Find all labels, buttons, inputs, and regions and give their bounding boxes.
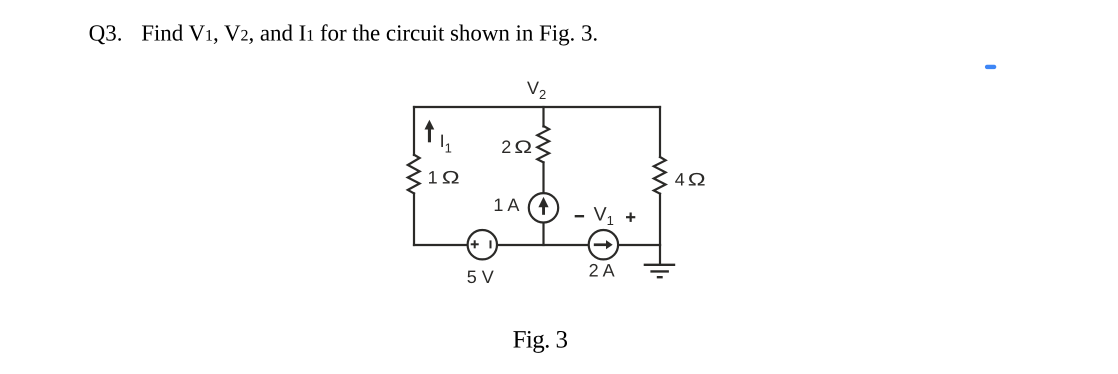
resistor R 4ohm (654, 157, 666, 194)
svg-text:Fig. 3: Fig. 3 (513, 327, 568, 354)
wire middle lower (542, 223, 544, 245)
svg-text:Ω: Ω (688, 170, 706, 190)
resistor R 1ohm (408, 155, 420, 194)
svg-text:Q3.: Q3. (89, 21, 123, 46)
current arrow I1 (425, 120, 435, 143)
svg-text:1: 1 (428, 168, 438, 188)
svg-text:Find V1, V2, and I1 for the ci: Find V1, V2, and I1 for the circuit show… (141, 21, 598, 46)
svg-text:2: 2 (501, 137, 511, 157)
voltage source 5V circle (468, 230, 497, 259)
2A source arrow (594, 240, 613, 249)
svg-text:Ω: Ω (442, 168, 460, 188)
current source 1A circle (529, 193, 558, 222)
svg-text:5 V: 5 V (467, 267, 494, 287)
1A source arrow (538, 197, 548, 215)
wire left upper (413, 107, 415, 155)
label V1 polarity minus (575, 215, 584, 217)
svg-text:Ω: Ω (514, 137, 532, 157)
wire top (node V2) (414, 106, 660, 108)
svg-text:V2: V2 (527, 78, 546, 102)
wire left lower (413, 193, 415, 245)
wire middle upper (542, 107, 544, 127)
wire right upper (659, 107, 661, 157)
ground bars (644, 265, 676, 277)
5V source polarity marks (471, 240, 491, 248)
wire bottom left segment (414, 244, 467, 246)
svg-text:2 A: 2 A (589, 260, 615, 280)
label V1 polarity plus (626, 213, 635, 222)
resistor R 2ohm (537, 126, 549, 162)
svg-text:4: 4 (675, 170, 685, 190)
wire bottom right segment (619, 244, 660, 246)
wire bottom middle segment (498, 244, 589, 246)
wire middle between R2 and source (542, 162, 544, 193)
blue cursor dash (985, 65, 996, 69)
current source 2A circle (589, 230, 618, 259)
svg-text:1 A: 1 A (493, 195, 519, 215)
svg-text:I1: I1 (440, 131, 452, 156)
wire right lower (659, 194, 661, 245)
ground stem (659, 245, 661, 265)
svg-text:V1: V1 (594, 204, 614, 228)
